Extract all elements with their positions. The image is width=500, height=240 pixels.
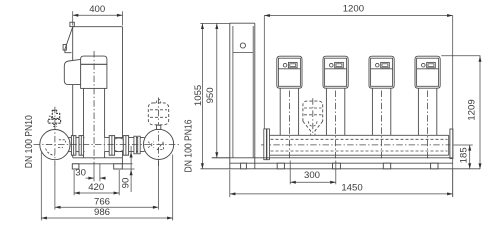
extension line pump top level	[441, 55, 480, 57]
cabinet front view	[230, 23, 255, 169]
valve detail in suction circle	[46, 140, 66, 155]
pump centerline	[93, 51, 95, 164]
membrane vessel front view (dashed)	[303, 98, 323, 135]
manifold end flange left	[264, 129, 270, 160]
foot pump4	[431, 163, 438, 169]
dimension 90	[121, 146, 135, 192]
manifold centerline	[261, 144, 473, 146]
base foot right side view	[114, 164, 123, 169]
svg-text:90: 90	[121, 178, 132, 189]
svg-text:986: 986	[94, 207, 110, 218]
membrane vessel side view (dashed)	[148, 98, 168, 125]
pipe centerline horizontal	[34, 144, 181, 146]
svg-text:1200: 1200	[343, 4, 364, 15]
pump column side view	[84, 88, 105, 157]
terminal box side view	[64, 59, 80, 84]
dimension 986	[41, 153, 172, 221]
dimension 1209	[453, 16, 482, 197]
valve body between flanges	[115, 138, 124, 152]
svg-text:1209: 1209	[467, 99, 478, 120]
svg-text:30: 30	[75, 167, 86, 178]
base foot left side view	[72, 164, 79, 169]
svg-text:185: 185	[459, 147, 470, 163]
label DN 100 PN16 left view	[184, 119, 195, 172]
dimension 950	[205, 23, 230, 157]
svg-text:420: 420	[88, 182, 104, 193]
dimension 30	[75, 164, 105, 181]
flange pair at discharge manifold	[134, 136, 140, 154]
floor line	[200, 168, 480, 170]
check valve detail in discharge circle	[148, 142, 163, 150]
base frame front view	[212, 158, 453, 163]
suction pipe flange pair	[71, 136, 83, 156]
pump 4 front view	[415, 56, 440, 158]
suction pipe side view	[69, 138, 85, 152]
motor side view	[81, 56, 107, 88]
foot pump3	[383, 163, 390, 169]
foot pump2	[333, 163, 341, 169]
svg-text:766: 766	[94, 196, 110, 207]
manifold end flange right	[449, 129, 453, 159]
control cabinet side view	[73, 27, 123, 158]
dimension 185	[459, 145, 472, 169]
cabinet hinge block	[70, 22, 74, 26]
pump 1 front view	[277, 56, 302, 158]
dimension 1055	[193, 23, 204, 168]
label DN 100 PN10	[24, 115, 35, 168]
discharge manifold end circle	[144, 123, 174, 169]
dimension 300	[290, 161, 336, 185]
dimension 1200	[264, 4, 452, 129]
svg-text:1055: 1055	[193, 85, 204, 106]
vessel connector block	[157, 125, 161, 129]
pump 3 front view	[369, 56, 394, 158]
svg-text:400: 400	[89, 4, 105, 15]
dimension 420	[74, 170, 119, 195]
discharge pipe side view	[105, 138, 145, 152]
manifold pipe front view	[267, 135, 449, 155]
svg-text:950: 950	[205, 87, 216, 103]
cabinet door opened (slanted)	[63, 27, 73, 53]
svg-text:DN 100 PN10: DN 100 PN10	[24, 115, 35, 168]
svg-text:300: 300	[304, 170, 320, 181]
cabinet foot	[241, 163, 247, 169]
cabinet lock circle	[240, 43, 245, 48]
suction manifold end circle	[40, 124, 70, 166]
pump 2 front view	[323, 56, 348, 158]
base frame side view	[73, 158, 133, 164]
dimension 766	[55, 161, 159, 210]
valve symbol above suction circle	[48, 107, 61, 127]
foot pump1	[277, 163, 284, 169]
extension line cabinet top	[200, 22, 230, 24]
svg-text:1450: 1450	[341, 182, 362, 193]
dimension 400	[73, 4, 123, 26]
dimension 1450	[230, 170, 453, 197]
svg-text:DN 100 PN16: DN 100 PN16	[184, 119, 195, 172]
discharge flange pair at pump	[109, 136, 128, 156]
